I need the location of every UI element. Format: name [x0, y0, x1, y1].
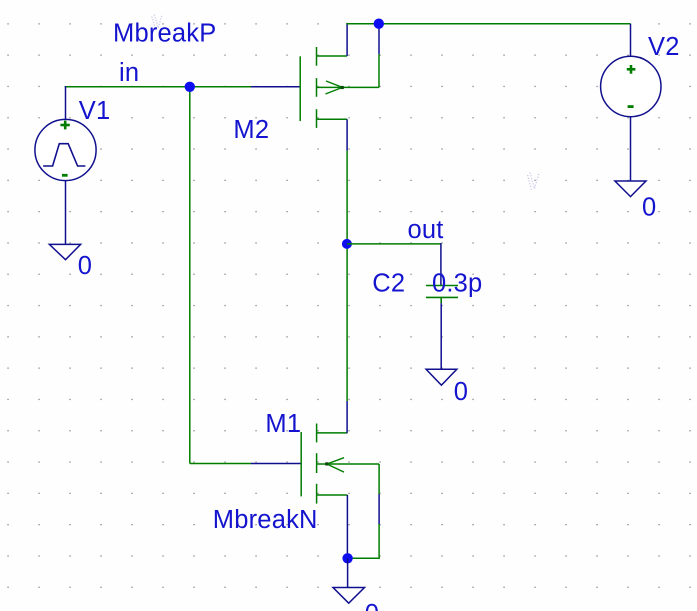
wire: M2 drain to M1 drain vertical (out net): [346, 151, 348, 401]
node out: junction dot: [342, 239, 352, 249]
svg-text:0: 0: [78, 252, 92, 280]
svg-text:in: in: [119, 59, 139, 87]
node in: junction dot: [185, 82, 195, 92]
voltage source V2 DC: [601, 24, 661, 181]
svg-text:C2: C2: [372, 270, 405, 298]
wire: bulk riser navy part: [378, 24, 380, 55]
wire: M2 gate pin stub: [251, 86, 300, 88]
wire: out to C2: [347, 243, 441, 245]
wire: M1 bulk riser: [378, 464, 380, 494]
capacitor C2: [426, 286, 458, 304]
voltage source V1 pulse: [35, 86, 96, 244]
svg-text:MbreakP: MbreakP: [113, 20, 216, 48]
wire: horizontal to M1 gate: [190, 463, 251, 465]
ground 0 below V1: [49, 244, 80, 259]
wire: in net horizontal from V1 to M2 gate: [65, 86, 251, 88]
svg-text:V1: V1: [79, 97, 111, 125]
svg-text:0: 0: [365, 600, 379, 611]
wire: C2 bottom lead: [440, 303, 442, 369]
transistor M1 MbreakN NMOS: [301, 401, 379, 558]
node 0: junction dot: [342, 553, 352, 563]
wire: to bottom ground: [347, 558, 349, 587]
wire: C2 top lead: [440, 243, 442, 285]
wire: bulk to source junction: [348, 557, 380, 559]
wire: VDD rail: [346, 23, 630, 25]
svg-text:M1: M1: [265, 410, 301, 438]
svg-text:M2: M2: [233, 116, 269, 144]
viewpoint marker watermark top: [152, 15, 162, 29]
svg-text:0: 0: [642, 193, 656, 221]
svg-text:MbreakN: MbreakN: [213, 506, 318, 534]
transistor M2 MbreakP PMOS: [300, 23, 379, 151]
svg-text:0.3p: 0.3p: [432, 270, 482, 298]
wire: vertical in net from junction down to M1 gate: [189, 86, 191, 464]
svg-text:V2: V2: [648, 33, 680, 61]
svg-text:out: out: [408, 216, 444, 244]
node VDD: junction dot: [374, 19, 384, 29]
wire: M1 gate pin stub: [251, 463, 301, 465]
wire: bulk riser green part: [378, 54, 380, 87]
ground 0 below C2: [426, 369, 457, 385]
viewpoint marker watermark right: [528, 173, 540, 190]
svg-text:0: 0: [454, 378, 468, 406]
ground 0 at bottom: [333, 588, 365, 604]
ground 0 below V2: [615, 181, 646, 197]
